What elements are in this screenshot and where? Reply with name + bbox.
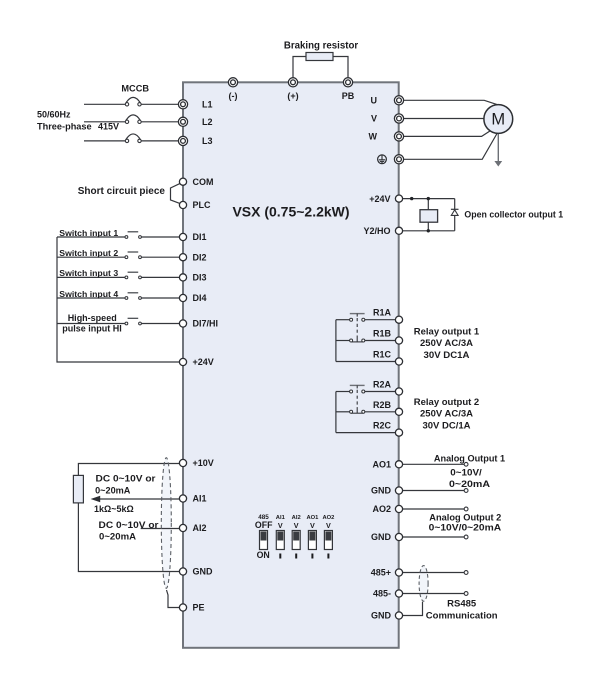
terminal R2C [373,421,403,437]
svg-text:L3: L3 [202,136,213,146]
diode branch [451,199,459,231]
RS485 shield dashed outline [419,566,428,602]
wire (+) to braking resistor [293,57,306,83]
terminal 485- [373,589,403,599]
terminal GND right 2 [371,532,403,542]
terminal DI3 [179,273,206,283]
svg-text:AO2: AO2 [372,504,391,514]
label analog output 1 [434,453,506,489]
svg-text:MCCB: MCCB [121,83,149,93]
terminal COM [179,177,213,187]
svg-text:M: M [491,111,505,129]
label analog output 2 [429,513,502,534]
terminal earth [394,155,403,164]
svg-text:High-speed: High-speed [68,313,117,323]
switch input 4 [57,289,179,300]
terminal R2A [373,380,403,396]
svg-text:GND: GND [371,532,392,542]
svg-text:U: U [371,96,378,106]
label relay output 2 [414,397,479,431]
svg-text:R2C: R2C [373,421,392,431]
svg-text:AI1: AI1 [193,494,207,504]
wire +24V right [403,198,455,200]
terminal W [369,132,404,142]
svg-text:RS485: RS485 [447,599,477,610]
terminal Y2/HO [363,226,402,236]
terminal +10V [179,458,213,468]
svg-text:W: W [369,132,378,142]
shield drain to PE [167,590,180,608]
svg-text:V: V [278,521,283,530]
svg-text:R1C: R1C [373,350,392,360]
svg-text:R1B: R1B [373,329,392,339]
svg-text:Three-phase: Three-phase [37,122,92,132]
wire braking resistor to PB [333,57,348,83]
terminal DI2 [179,252,206,262]
analog input shield ellipse [161,458,171,589]
svg-text:V: V [371,114,377,124]
svg-text:Switch input 3: Switch input 3 [59,268,118,278]
protective earth symbol [378,155,387,164]
DIP switch AO1 [308,531,316,559]
potentiometer 1k-5k [73,475,83,503]
breaker pole L3 [84,134,178,143]
switch input 1 [57,228,179,239]
DIP switch AO2 [324,531,332,559]
label RS485 communication [426,599,498,622]
wire AI2 [141,528,180,530]
svg-text:DI4: DI4 [193,293,207,303]
wire +10V to potentiometer [78,464,179,476]
svg-text:L1: L1 [202,100,213,110]
svg-text:0~10V/: 0~10V/ [450,467,482,478]
terminal PLC [179,200,211,210]
terminal DI1 [179,232,206,242]
inverter body box [183,82,399,648]
svg-text:DC 0~10V or: DC 0~10V or [99,520,159,530]
terminal DI4 [179,293,206,303]
terminal AI2 [179,523,206,533]
terminal DI7/HI [179,319,218,329]
svg-text:V: V [294,521,299,530]
svg-text:PB: PB [342,91,355,101]
wire GND (AO2) [403,535,468,539]
svg-text:+24V: +24V [193,357,214,367]
terminal +24V right [369,194,402,204]
label 50/60Hz Three-phase 415V [37,110,119,132]
svg-text:250V AC/3A: 250V AC/3A [420,409,473,420]
DIP switch AI1 [276,531,284,559]
switch input 3 [57,268,179,279]
RS485 shield ellipse [419,566,428,602]
svg-text:ON: ON [257,550,270,560]
terminal (+) [287,78,298,101]
label relay output 1 [414,326,480,361]
svg-text:OFF: OFF [255,520,273,530]
wire W to motor [404,131,491,137]
svg-text:V: V [326,521,331,530]
junction dot on +24V wire [410,197,413,200]
terminal R1A [373,308,403,324]
relay 2 contact [336,385,396,432]
label DC 0~10V or 0~20mA (AI1) [95,474,156,496]
svg-text:30V DC1A: 30V DC1A [424,350,470,361]
svg-text:Switch input 1: Switch input 1 [59,228,118,238]
svg-text:V: V [310,521,315,530]
svg-text:AO1: AO1 [372,460,391,470]
svg-text:Analog Output 1: Analog Output 1 [434,453,506,464]
svg-text:Relay output 1: Relay output 1 [414,326,480,337]
svg-text:DI1: DI1 [193,232,207,242]
svg-text:DI3: DI3 [193,273,207,283]
terminal R1C [373,350,403,366]
wire AO2 [403,507,468,511]
svg-text:Short circuit piece: Short circuit piece [78,186,166,197]
svg-text:0~10V/0~20mA: 0~10V/0~20mA [429,522,502,533]
wire Y2/HO [403,230,455,232]
terminal +24V left [179,357,213,367]
wire earth to motor ground [404,133,498,159]
wire 485- [403,592,468,596]
terminal R1B [373,329,403,345]
svg-text:30V DC/1A: 30V DC/1A [422,420,470,431]
terminal AO1 [372,460,402,470]
svg-text:250V AC/3A: 250V AC/3A [420,338,473,349]
wire V to motor [404,118,489,120]
svg-text:(+): (+) [287,91,298,101]
svg-text:0~20mA: 0~20mA [449,479,490,490]
DIP switch block [255,514,334,560]
svg-text:Switch input 2: Switch input 2 [59,248,118,258]
svg-text:Y2/HO: Y2/HO [363,226,390,236]
DIP switch AI2 [292,531,300,559]
svg-text:GND: GND [193,567,214,577]
terminal GND right 3 [371,611,403,621]
svg-text:pulse input HI: pulse input HI [62,324,122,334]
svg-text:Relay output 2: Relay output 2 [414,397,479,408]
svg-text:R2A: R2A [373,380,392,390]
svg-text:415V: 415V [98,122,119,132]
DIP switch 485 [260,531,268,550]
terminal (-) [228,78,237,101]
wire GND to shield [403,602,423,616]
terminal L1 [178,100,212,110]
svg-text:+10V: +10V [193,458,214,468]
wire U to motor [404,100,498,105]
svg-text:Braking resistor: Braking resistor [284,41,359,52]
relay 1 contact [336,314,396,362]
wire 485+ [403,571,468,575]
wire potentiometer to GND [78,503,179,572]
junction dot coil bottom [427,229,430,232]
svg-text:+24V: +24V [369,194,390,204]
svg-text:Switch input 4: Switch input 4 [59,289,118,299]
svg-text:COM: COM [193,177,214,187]
wire AO1 [403,462,468,466]
motor M [484,105,513,134]
short circuit piece bracket [171,184,180,204]
svg-text:50/60Hz: 50/60Hz [37,110,71,120]
svg-text:485+: 485+ [371,568,391,578]
svg-text:AI2: AI2 [193,523,207,533]
switch input 2 [57,248,179,259]
svg-text:DI7/HI: DI7/HI [193,319,219,329]
svg-text:0~20mA: 0~20mA [99,532,137,542]
svg-text:PE: PE [193,603,205,613]
terminal GND right 1 [371,486,403,496]
junction dot coil top [427,197,430,200]
svg-text:R2B: R2B [373,400,392,410]
terminal AO2 [372,504,402,514]
svg-text:Communication: Communication [426,610,498,621]
braking resistor R [306,53,333,61]
terminal PB [342,78,355,101]
svg-text:L2: L2 [202,117,213,127]
breaker pole L1 [84,97,178,106]
terminal R2B [373,400,403,416]
high-speed pulse input [57,313,179,334]
terminal AI1 [179,494,206,504]
svg-text:DI2: DI2 [193,252,207,262]
terminal PE [179,603,204,613]
arrow AI1 wiper [91,496,180,502]
svg-text:DC 0~10V or: DC 0~10V or [96,474,156,484]
DI bus [57,237,179,362]
svg-text:0~20mA: 0~20mA [95,485,131,495]
svg-text:Open collector output 1: Open collector output 1 [464,210,563,220]
label DC 0~10V or 0~20mA (AI2) [99,520,159,541]
svg-text:(-): (-) [229,91,238,101]
wire GND (AO1) [403,489,468,493]
svg-text:GND: GND [371,611,392,621]
shield ellipse dashed outline [161,458,171,589]
svg-text:R1A: R1A [373,308,392,318]
terminal GND left [179,567,213,577]
breaker pole L2 [84,115,178,124]
svg-text:VSX (0.75~2.2kW): VSX (0.75~2.2kW) [232,203,349,219]
terminal L2 [178,117,212,127]
svg-text:PLC: PLC [193,200,212,210]
svg-text:GND: GND [371,486,392,496]
terminal L3 [178,136,212,146]
svg-text:1kΩ~5kΩ: 1kΩ~5kΩ [94,504,134,514]
terminal U [371,96,404,106]
motor ground arrow [494,133,502,166]
relay coil branch [420,199,438,231]
terminal V [371,114,404,124]
terminal 485+ [371,568,403,578]
svg-text:485-: 485- [373,589,391,599]
